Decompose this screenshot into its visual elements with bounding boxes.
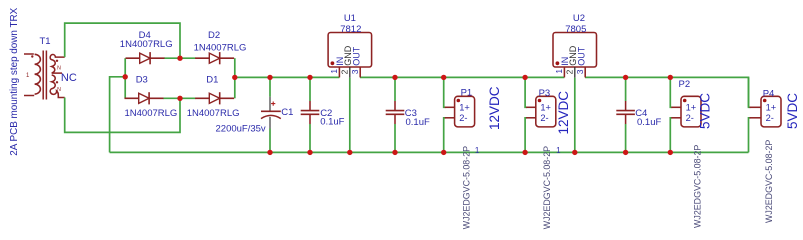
wire bridge plus vertical	[234, 58, 236, 98]
capacitor C4 top pin	[625, 101, 627, 111]
wire AC2 bottom route	[65, 98, 180, 133]
wire bridge minus vertical	[124, 58, 126, 98]
capacitor C2 bottom wire	[309, 124, 311, 152]
connector P4 body	[761, 96, 781, 127]
junction ground rail x270	[267, 150, 272, 155]
svg-text:1+: 1+	[459, 103, 470, 113]
svg-text:1+: 1+	[766, 103, 777, 113]
wire U2 ground pin to rail	[574, 78, 576, 153]
regulator U1 pin 1 stub	[338, 67, 340, 77]
svg-text:1: 1	[475, 146, 480, 155]
junction node AC1 bridge top	[177, 56, 182, 61]
junction top rail x395	[392, 75, 397, 80]
svg-text:1N4007RLG: 1N4007RLG	[125, 108, 178, 119]
connector P4 pin 2 stub	[750, 117, 762, 119]
svg-text:2-: 2-	[686, 113, 694, 123]
svg-text:T1: T1	[40, 36, 51, 47]
regulator U1 pin 3 stub	[359, 67, 361, 77]
wire bottom row D3-D1	[163, 97, 196, 99]
connector P3 feed wire upper	[525, 77, 527, 107]
capacitor C1 curved bottom plate	[261, 115, 281, 118]
capacitor C3 top pin	[394, 101, 396, 111]
junction ground rail x395	[392, 150, 397, 155]
transformer T1 secondary winding lower	[50, 75, 64, 98]
svg-text:0.1uF: 0.1uF	[637, 117, 661, 128]
svg-text:3: 3	[575, 69, 585, 74]
capacitor C1 top plate	[261, 110, 281, 112]
regulator U1 pin 1 marker dot	[331, 61, 335, 65]
svg-text:WJ2EDGVC-5.08-2P: WJ2EDGVC-5.08-2P	[462, 146, 472, 229]
svg-text:NC: NC	[61, 72, 77, 84]
svg-text:0.1uF: 0.1uF	[406, 117, 430, 128]
svg-text:2-: 2-	[459, 113, 467, 123]
capacitor C4 bottom wire	[625, 124, 627, 152]
connector P2 feed wire lower to ground	[670, 118, 672, 153]
svg-text:P3: P3	[539, 88, 551, 99]
transformer T1 primary polarity dot	[31, 55, 33, 57]
junction ground rail x574.8	[572, 150, 577, 155]
svg-text:1+: 1+	[686, 103, 697, 113]
regulator U1 pin 2 stub	[349, 67, 351, 78]
diode D3 cathode bar	[148, 92, 150, 104]
capacitor C1 bottom wire	[269, 129, 271, 153]
svg-text:5VDC: 5VDC	[785, 93, 800, 129]
svg-text:5VDC: 5VDC	[698, 93, 713, 129]
diode D4 pins	[126, 57, 165, 59]
diode D3 pins	[125, 97, 164, 99]
svg-text:1N4007RLG: 1N4007RLG	[187, 108, 240, 119]
capacitor C3 bottom wire	[394, 124, 396, 152]
svg-text:2-: 2-	[766, 113, 774, 123]
svg-text:WJ2EDGVC-5.08-2P: WJ2EDGVC-5.08-2P	[692, 145, 702, 228]
junction ground rail x349.8	[347, 150, 352, 155]
connector P4 feed wire upper	[749, 77, 751, 107]
svg-text:1N4007RLG: 1N4007RLG	[120, 39, 173, 50]
diode D4 triangle	[140, 53, 150, 63]
diode D1 pins	[195, 97, 234, 99]
regulator U2 pin 3 stub	[584, 67, 586, 77]
svg-text:P2: P2	[679, 79, 691, 90]
svg-text:1N4007RLG: 1N4007RLG	[194, 42, 247, 53]
wire top rail segment 3	[585, 77, 749, 107]
regulator U2 pin 2 stub	[574, 67, 576, 78]
transformer T1 primary winding	[24, 54, 40, 96]
capacitor C2 plates	[301, 111, 320, 115]
connector P4 pin 1 marker dot	[763, 99, 767, 103]
junction top rail x270	[267, 75, 272, 80]
svg-text:N: N	[57, 87, 61, 93]
connector P2 pin 1 stub	[671, 106, 681, 108]
svg-text:2: 2	[340, 69, 350, 74]
diode D1 cathode bar	[219, 92, 221, 104]
capacitor C4 plates	[616, 111, 635, 115]
connector P1 pin 2 stub	[445, 117, 455, 119]
regulator U1 body	[328, 33, 372, 68]
svg-text:D1: D1	[206, 75, 218, 86]
regulator U2 pin 1 marker dot	[556, 61, 560, 65]
svg-text:2-: 2-	[540, 113, 548, 123]
wire U1 ground pin to rail	[349, 78, 351, 153]
diode D2 triangle	[209, 53, 219, 63]
junction top rail x525.1	[522, 75, 527, 80]
junction node AC2 bridge bottom	[177, 96, 182, 101]
svg-text:D2: D2	[208, 30, 220, 41]
capacitor C2 top pin	[309, 101, 311, 111]
connector P1 feed wire upper	[444, 77, 446, 107]
transformer T1 core	[43, 51, 46, 100]
svg-text:P1: P1	[461, 87, 473, 98]
svg-text:2A PCB mounting step down TRX: 2A PCB mounting step down TRX	[9, 7, 20, 155]
connector P3 pin 1 marker dot	[538, 99, 542, 103]
connector P2 feed wire upper	[670, 77, 672, 107]
capacitor C1 bottom pin	[269, 117, 271, 129]
capacitor C3 top wire	[394, 77, 396, 101]
svg-text:2200uF/35v: 2200uF/35v	[216, 124, 266, 135]
junction top rail x234.8	[232, 75, 237, 80]
svg-text:OUT: OUT	[577, 46, 587, 66]
svg-text:WJ2EDGVC-5.08-2P: WJ2EDGVC-5.08-2P	[542, 146, 552, 229]
junction ground rail x443.7	[441, 150, 446, 155]
svg-text:U2: U2	[573, 13, 585, 24]
regulator U2 pin 1 stub	[563, 67, 565, 77]
connector P1 pin 1 stub	[445, 106, 455, 108]
connector P1 feed wire lower to ground	[444, 118, 446, 153]
svg-text:D3: D3	[136, 75, 148, 86]
junction ground rail x625.6	[623, 150, 628, 155]
junction top rail x443.7	[441, 75, 446, 80]
diode D4 cathode bar	[149, 52, 151, 64]
connector P4 feed wire lower to ground	[749, 118, 751, 153]
svg-text:0.1uF: 0.1uF	[320, 117, 344, 128]
regulator U2 body	[553, 33, 597, 68]
junction ground rail x670.3	[668, 150, 673, 155]
diode D1 triangle	[209, 93, 219, 103]
svg-text:12VDC: 12VDC	[556, 91, 571, 135]
junction ground rail x310	[307, 150, 312, 155]
svg-text:3: 3	[350, 69, 360, 74]
connector P1 pin 1 marker dot	[457, 99, 461, 103]
svg-text:N: N	[57, 65, 61, 71]
diode D2 pins	[195, 57, 234, 59]
capacitor C4 bottom pin	[625, 114, 627, 124]
connector P2 pin 1 marker dot	[683, 99, 687, 103]
capacitor C3 plates	[386, 111, 405, 115]
capacitor C4 top wire	[625, 77, 627, 101]
svg-text:U1: U1	[344, 13, 356, 24]
junction top rail x625.6	[623, 75, 628, 80]
capacitor C3 bottom pin	[394, 114, 396, 124]
connector P3 pin 1 stub	[526, 106, 536, 108]
wire bottom ground rail	[110, 151, 749, 153]
svg-text:12VDC: 12VDC	[487, 86, 502, 130]
connector P3 pin 2 stub	[526, 117, 536, 119]
connector P4 pin 1 stub	[750, 106, 762, 108]
diode D3 triangle	[139, 93, 149, 103]
svg-text:7805: 7805	[565, 24, 586, 35]
junction top rail x670.3	[668, 75, 673, 80]
svg-text:P4: P4	[763, 88, 775, 99]
connector P2 body	[681, 96, 701, 127]
svg-text:1: 1	[556, 146, 561, 155]
capacitor C2 top wire	[309, 77, 311, 101]
capacitor C1 plus sign	[271, 102, 275, 106]
wire top rail segment 1	[235, 76, 340, 78]
wire top row D4-D2	[164, 57, 196, 59]
junction ground rail x525.1	[522, 150, 527, 155]
junction minus node	[123, 74, 128, 79]
connector P3 feed wire lower to ground	[525, 118, 527, 153]
svg-text:1+: 1+	[540, 103, 551, 113]
svg-text:2: 2	[565, 69, 575, 74]
connector P2 pin 2 stub	[671, 117, 681, 119]
connector P3 body	[536, 96, 556, 127]
wire top rail segment 2	[360, 76, 564, 78]
wire minus node to ground rail	[110, 77, 126, 153]
svg-text:OUT: OUT	[352, 46, 362, 66]
transformer T1 secondary dot upper	[56, 60, 58, 62]
junction top rail x310	[307, 75, 312, 80]
svg-text:C1: C1	[281, 107, 293, 118]
svg-text:1: 1	[554, 69, 564, 74]
capacitor C1 top wire	[269, 77, 271, 96]
transformer T1 secondary winding upper	[50, 54, 64, 73]
wire AC1 top route	[65, 23, 180, 58]
transformer T1 secondary dot lower	[56, 81, 58, 83]
svg-text:1: 1	[329, 69, 339, 74]
svg-text:WJ2EDGVC-5.08-2P: WJ2EDGVC-5.08-2P	[764, 140, 774, 223]
connector P1 body	[455, 96, 475, 127]
capacitor C2 bottom pin	[309, 114, 311, 124]
svg-text:7812: 7812	[340, 24, 361, 35]
diode D2 cathode bar	[219, 52, 221, 64]
capacitor C1 top pin	[269, 97, 271, 112]
